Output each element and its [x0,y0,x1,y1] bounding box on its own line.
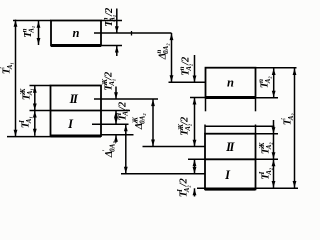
extension of right II/I divider to the left [188,158,205,160]
dimension line delta-0-n between midlines of boxes n [171,33,173,82]
dimension line T^n A1 [38,21,40,46]
arrowhead delta-0-II top [151,99,155,106]
label T'A1 [0,62,14,74]
midline of box II extended right [94,98,158,100]
witness line above right box II right edge [255,125,257,134]
dimension line T^n A1 over 2 (lower part) [116,46,118,57]
arrowhead T^II/2 A2 at midline [193,140,197,147]
label T^n A2 [257,76,272,89]
arrowhead T^I/2 A2 at box bottom [193,189,197,196]
extension of box I bottom edge to the left [7,136,51,138]
witness line below right box n right edge [255,98,257,112]
label delta-0^II A2 [132,113,147,131]
extension of II/I divider to the right [101,110,130,112]
arrowhead T^n A1 bottom [37,38,41,45]
extension of box n bottom edge to the right [101,45,122,47]
dimension line delta-0-II between midlines of boxes II [152,99,154,147]
arrowhead T^II/2 A1 at divider [114,111,118,118]
extension of II/I divider to the left [30,110,51,112]
arrowhead T'A1 bottom [14,130,18,137]
dimension line T^II A1 over 2 (upper part) [115,87,117,100]
svg-text:n: n [155,49,163,53]
svg-text:Ж: Ж [132,116,140,124]
dimension line T^n A2 over 2 (upper part) [194,55,196,82]
small junction tick on box n midline [131,31,133,36]
arrowhead delta-0-n top [170,33,174,40]
svg-text:/2: /2 [181,56,192,66]
svg-text:/2: /2 [104,71,115,81]
arrowhead T'A2 bottom [293,181,297,188]
arrowhead T^I/2 A1 at box bottom [114,135,118,142]
arrowhead delta-0' bottom [124,167,128,174]
midline of box n extended right to delta-0-n dimension [94,32,172,34]
label T^n A2 / 2 [178,56,193,76]
box n (right chain A2, operation n) [206,68,256,98]
svg-text:/2: /2 [117,101,128,111]
arrowhead T^I/2 A2 at midline [193,167,197,174]
svg-text:′: ′ [280,118,288,120]
midline of box I extended right [92,123,129,125]
arrowhead delta-0-n bottom [170,75,174,82]
svg-text:Ж: Ж [19,88,27,96]
extension of box II top edge to the left [30,85,51,87]
svg-text:I: I [176,189,184,193]
arrowhead T^n/2 A2 at box bottom [193,98,197,105]
arrowhead T^II/2 A1 at midline [114,92,118,99]
bottom reference line of right box I extended both sides [197,187,298,189]
dimension line T^II A1 / T^I A1 [34,86,36,136]
label T^n A1 [21,26,36,38]
svg-text:n: n [21,28,29,32]
label delta-0^n A2 [155,43,170,61]
arrowhead T^n A1 top [37,21,41,28]
reference line between right boxes n and II [205,125,275,127]
label delta-0' A2 [102,141,117,159]
svg-text:/2: /2 [179,177,190,187]
svg-text:I: I [258,171,266,175]
dimension line T^II A2 / T^I A2 [273,120,275,188]
arrowhead T^II A1 bottom [33,104,37,111]
label T^I A1 / 2 [115,101,130,121]
arrowhead delta-0-II bottom [151,140,155,147]
extension of box I bottom edge to the right [101,134,134,136]
arrowhead T^n/2 A2 at midline [193,76,197,83]
dimension line delta-0-prime between midlines of boxes I [125,124,127,174]
arrowhead T^n A2 top [272,68,276,75]
boxes II and I (left chain A1) [51,86,102,137]
arrowhead T'A1 top [14,20,18,27]
label T^I A2 [258,167,273,180]
dimension line T^I A2 over 2 (lower part) [194,188,196,196]
svg-text:I: I [115,112,123,116]
dimension line T'A2 (blank tolerance, right) [294,68,296,188]
svg-text:n: n [102,17,110,21]
extension of right box n top to the right [256,67,297,69]
label T^n A1 / 2 [102,7,117,27]
arrowhead T^II/2 A2 at divider [193,160,197,167]
svg-text:′: ′ [102,149,110,151]
extension of box n top edge to the right [101,20,122,22]
arrowhead T^n A2 bottom [272,91,276,98]
svg-text:/2: /2 [180,116,191,126]
svg-text:n: n [227,76,234,90]
arrowhead T^n/2 A1 at midline [115,26,119,33]
svg-text:/2: /2 [104,7,115,17]
arrowhead delta-0' top [124,125,128,132]
dimension line T^n A2 [273,68,275,98]
label T^II A2 [258,142,273,155]
label T^I A2 / 2 [176,177,191,197]
arrowhead T^II A2 bottom [272,152,276,159]
svg-text:I: I [18,120,26,124]
arrowhead T^n/2 A1 at box bottom [115,46,119,53]
dimension line T'A1 (blank tolerance, left) [15,20,17,137]
dimension line T^II A1 over 2 / T^I A1 over 2 (shared middle part) [115,111,117,125]
dimension line T^II A2 over 2 (lower) / T^I A2 over 2 (upper) [194,159,196,174]
extension of right box n bottom to the left [190,97,206,99]
label T^II A1 / 2 [101,71,116,91]
witness line above right box II left edge [204,125,206,134]
svg-text:′: ′ [0,67,7,69]
arrowhead T^II A1 top [33,86,37,93]
midline of right box II extended left [143,146,206,148]
dimension line T^n A2 over 2 (lower part) / T^II A2 over 2 (upper part) [194,98,196,147]
extension of box n top edge to the left [13,20,51,22]
arrowhead T^I/2 A1 at midline [114,117,118,124]
box n (left chain A1, operation n) [51,21,101,46]
label T'A2 [280,113,295,126]
label T^II A1 [19,88,34,100]
extension of right II/I divider to the right [256,158,279,160]
label T^II A2 / 2 [177,116,192,136]
extension of right box II top to the right [256,133,279,135]
midline of right box I extended left [121,173,205,175]
arrowhead T^I A1 bottom [33,129,37,136]
midline of right box n extended left [169,81,206,83]
arrowhead T^II A2 top [272,127,276,134]
label T^I A1 [18,116,33,128]
dimension line T^I A1 over 2 (lower part) [115,135,117,143]
arrowhead T^I A2 bottom [272,181,276,188]
svg-text:n: n [178,66,186,70]
svg-text:n: n [257,79,265,83]
arrowhead T^I A2 top [272,160,276,167]
arrowhead T^I A1 top [33,111,37,118]
witness line below right box n left edge [205,98,207,112]
svg-text:Ж: Ж [258,142,266,150]
svg-text:n: n [73,26,80,40]
extension of right box n bottom to the right [256,97,279,99]
boxes II and I (right chain A2) [205,134,256,190]
dimension line T^n A1 over 2 (upper part) [116,9,118,34]
arrowhead T'A2 top [293,68,297,75]
